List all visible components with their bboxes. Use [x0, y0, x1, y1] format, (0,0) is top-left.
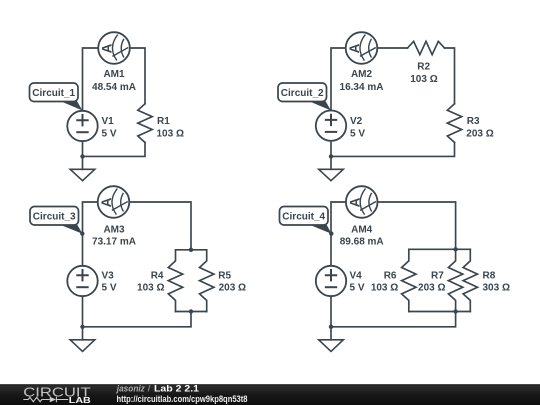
svg-text:203 Ω: 203 Ω	[418, 283, 445, 294]
svg-text:303 Ω: 303 Ω	[483, 283, 510, 294]
wire top-left (V2 top node to ammeter)	[331, 48, 346, 111]
ammeter AM3	[98, 186, 130, 218]
svg-text:V1: V1	[102, 116, 115, 127]
wire ammeter to R2	[377, 47, 407, 49]
svg-text:AM3: AM3	[103, 225, 125, 236]
ammeter AM1	[98, 32, 130, 64]
svg-text:V3: V3	[102, 270, 115, 281]
wire parallel bottom bar	[176, 311, 207, 313]
resistor R5	[200, 250, 214, 312]
svg-text:V2: V2	[350, 116, 363, 127]
resistor R2	[408, 41, 445, 54]
junction node (bottom rail)	[329, 325, 333, 329]
callout Circuit_4	[280, 207, 334, 236]
svg-text:R1: R1	[157, 116, 170, 127]
ground	[319, 169, 344, 180]
svg-text:jasoniz: jasoniz	[116, 384, 145, 394]
ground	[70, 340, 95, 352]
callout Circuit_3	[30, 207, 85, 236]
junction node (top bar)	[453, 247, 457, 251]
svg-text:Circuit_3: Circuit_3	[33, 212, 76, 223]
svg-text:48.54 mA: 48.54 mA	[92, 82, 136, 93]
ammeter AM4	[346, 186, 378, 218]
wire top-left (V3 top node to ammeter)	[83, 202, 98, 266]
svg-text:Lab 2 2.1: Lab 2 2.1	[154, 384, 199, 394]
svg-text:89.68 mA: 89.68 mA	[340, 237, 384, 248]
svg-text:AM1: AM1	[103, 69, 125, 80]
svg-text:5 V: 5 V	[350, 283, 365, 294]
svg-text:5 V: 5 V	[102, 128, 117, 139]
svg-text:16.34 mA: 16.34 mA	[340, 82, 384, 93]
junction node (bottom bar)	[189, 309, 193, 313]
svg-text:R6: R6	[384, 270, 397, 281]
junction node (bottom rail)	[329, 154, 333, 158]
resistor R1	[138, 104, 152, 143]
resistor R3	[447, 104, 461, 143]
svg-text:Circuit_1: Circuit_1	[32, 88, 75, 99]
svg-text:Circuit_2: Circuit_2	[281, 88, 324, 99]
svg-text:103 Ω: 103 Ω	[137, 283, 164, 294]
wire top-left (V1 top node to ammeter)	[83, 48, 99, 111]
svg-text:73.17 mA: 73.17 mA	[92, 237, 136, 248]
svg-text:Circuit_4: Circuit_4	[282, 212, 325, 223]
svg-text:AM2: AM2	[351, 69, 373, 80]
wire group to bottom rail	[83, 312, 192, 327]
wire parallel top bar	[409, 248, 471, 250]
svg-text:103 Ω: 103 Ω	[410, 74, 437, 85]
svg-text:R4: R4	[151, 270, 164, 281]
resistor R6	[402, 249, 416, 311]
svg-text:V4: V4	[350, 270, 363, 281]
voltage source V4	[316, 266, 346, 296]
svg-text:LAB: LAB	[69, 395, 91, 405]
callout Circuit_2	[278, 83, 331, 111]
footer bar	[0, 384, 540, 405]
svg-text:5 V: 5 V	[350, 128, 365, 139]
ground	[70, 169, 95, 180]
svg-text:R7: R7	[431, 270, 444, 281]
wire V3 bottom to ground	[82, 296, 84, 340]
junction node (top bar)	[189, 248, 193, 252]
junction node (bottom rail)	[80, 325, 84, 329]
wire ammeter to R1 top	[130, 48, 145, 104]
wire R1 bottom to bottom rail	[83, 142, 146, 156]
wire ammeter to parallel group feed	[129, 202, 191, 250]
junction node (bottom bar)	[453, 309, 457, 313]
wire group to bottom rail	[331, 312, 456, 327]
wire V1 bottom to ground	[82, 141, 84, 169]
svg-text:R8: R8	[483, 270, 496, 281]
logo waveform	[23, 397, 68, 402]
svg-text:http://circuitlab.com/cpw9kp8q: http://circuitlab.com/cpw9kp8qn53t8	[117, 394, 248, 404]
wire V2 bottom to ground	[330, 141, 332, 169]
wire ammeter to parallel group feed	[378, 202, 456, 249]
callout Circuit_1	[30, 83, 83, 111]
resistor R7	[448, 249, 462, 311]
wire V4 bottom to ground	[330, 296, 332, 340]
svg-text:5 V: 5 V	[102, 283, 117, 294]
ground	[319, 340, 344, 352]
svg-text:103 Ω: 103 Ω	[157, 128, 184, 139]
junction node (bottom rail)	[80, 154, 84, 158]
wire parallel top bar	[176, 249, 207, 251]
svg-text:103 Ω: 103 Ω	[371, 283, 398, 294]
wire R2 to R3 top	[445, 48, 455, 104]
svg-text:R3: R3	[467, 116, 480, 127]
svg-text:203 Ω: 203 Ω	[219, 283, 246, 294]
svg-text:R5: R5	[218, 270, 231, 281]
svg-text:AM4: AM4	[351, 225, 373, 236]
voltage source V2	[316, 111, 346, 141]
wire parallel bottom bar	[409, 311, 471, 313]
voltage source V3	[67, 266, 97, 296]
resistor R8	[463, 249, 477, 311]
svg-text:R2: R2	[417, 62, 430, 73]
resistor R4	[168, 250, 182, 312]
ammeter AM2	[346, 32, 378, 64]
svg-text:203 Ω: 203 Ω	[466, 128, 493, 139]
wire R3 bottom to bottom rail	[331, 142, 455, 156]
voltage source V1	[67, 111, 97, 141]
wire top-left (V4 top node to ammeter)	[331, 202, 346, 266]
